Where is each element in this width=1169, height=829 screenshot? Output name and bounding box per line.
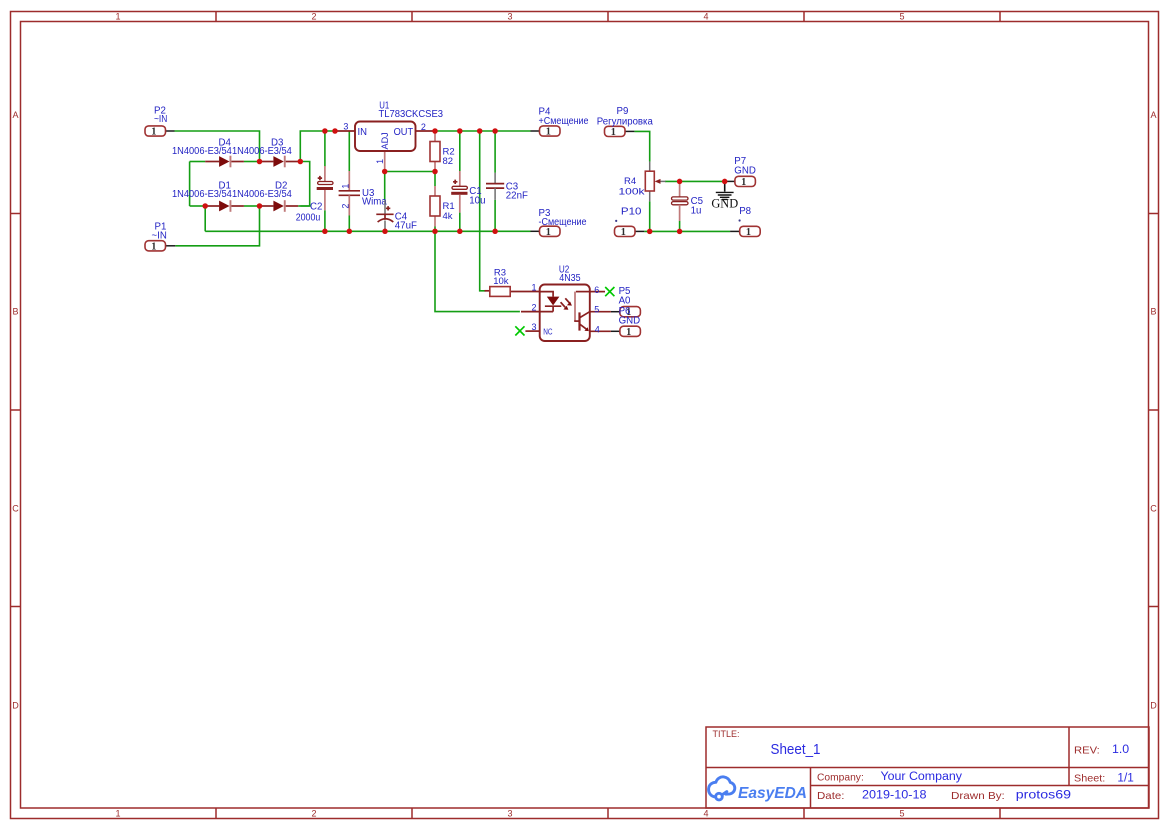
svg-text:2000u: 2000u [296,212,321,223]
svg-text:6: 6 [594,285,599,295]
svg-text:2019-10-18: 2019-10-18 [862,790,927,802]
svg-text:A: A [1150,110,1156,120]
svg-text:2: 2 [311,12,316,22]
svg-text:Your Company: Your Company [881,771,963,783]
svg-text:4: 4 [595,324,600,334]
svg-text:1N4006-E3/54: 1N4006-E3/54 [172,189,232,200]
svg-text:Drawn By:: Drawn By: [951,790,1005,802]
svg-text:5: 5 [594,305,599,315]
svg-text:4k: 4k [443,211,453,222]
svg-text:1/1: 1/1 [1117,772,1133,784]
svg-text:10k: 10k [493,276,509,287]
svg-text:GND: GND [734,165,756,176]
svg-text:Wima: Wima [362,196,387,207]
svg-text:5: 5 [899,12,904,22]
svg-text:NC: NC [543,326,552,336]
svg-text:P10: P10 [621,206,642,217]
svg-text:TL783CKCSE3: TL783CKCSE3 [379,109,444,120]
svg-text:TITLE:: TITLE: [713,729,740,740]
svg-text:47uF: 47uF [395,220,417,231]
svg-text:GND: GND [711,197,738,211]
svg-text:C2: C2 [310,201,322,212]
svg-text:2: 2 [421,122,426,132]
svg-text:C: C [12,504,19,514]
svg-text:2: 2 [341,204,351,209]
svg-text:REV:: REV: [1074,744,1100,756]
svg-text:2: 2 [311,809,316,819]
svg-text:-Смещение: -Смещение [539,217,587,228]
svg-text:100k: 100k [619,186,645,197]
svg-text:Company:: Company: [817,771,864,783]
svg-text:5: 5 [899,809,904,819]
svg-text:ADJ: ADJ [380,132,391,149]
svg-text:~IN: ~IN [154,114,167,125]
svg-text:Регулировка: Регулировка [597,117,654,128]
svg-text:P9: P9 [617,106,629,117]
svg-text:2: 2 [531,302,536,312]
svg-text:82: 82 [443,156,454,167]
svg-text:B: B [12,307,18,317]
svg-text:3: 3 [343,121,348,131]
svg-text:P8: P8 [739,206,751,217]
svg-text:4: 4 [703,12,708,22]
svg-text:1: 1 [375,159,385,164]
svg-text:1: 1 [115,809,120,819]
svg-text:1: 1 [341,184,351,189]
svg-text:GND: GND [619,315,641,326]
svg-text:3: 3 [531,322,536,332]
svg-text:Sheet_1: Sheet_1 [771,741,821,758]
svg-text:~IN: ~IN [152,230,167,241]
svg-text:A: A [12,110,18,120]
svg-text:10u: 10u [469,196,485,207]
svg-text:C: C [1150,504,1157,514]
svg-text:EasyEDA: EasyEDA [738,785,807,802]
svg-text:4: 4 [703,809,708,819]
svg-text:4N35: 4N35 [559,273,580,284]
svg-text:1.0: 1.0 [1112,744,1129,756]
svg-text:IN: IN [358,127,368,138]
svg-text:D: D [1150,701,1157,711]
svg-text:3: 3 [507,809,512,819]
svg-text:1: 1 [115,12,120,22]
svg-text:1: 1 [531,283,536,293]
svg-text:1u: 1u [691,206,702,217]
svg-text:Date:: Date: [817,790,845,802]
svg-text:B: B [1150,307,1156,317]
svg-text:1N4006-E3/54: 1N4006-E3/54 [232,189,292,200]
svg-text:22nF: 22nF [506,191,528,202]
svg-text:Sheet:: Sheet: [1074,773,1105,785]
svg-text:D: D [12,701,19,711]
svg-text:OUT: OUT [394,127,414,138]
svg-text:3: 3 [507,12,512,22]
svg-text:1N4006-E3/54: 1N4006-E3/54 [172,146,232,157]
svg-text:1N4006-E3/54: 1N4006-E3/54 [232,146,292,157]
svg-text:+Смещение: +Смещение [539,116,589,127]
svg-text:protos69: protos69 [1016,790,1071,802]
